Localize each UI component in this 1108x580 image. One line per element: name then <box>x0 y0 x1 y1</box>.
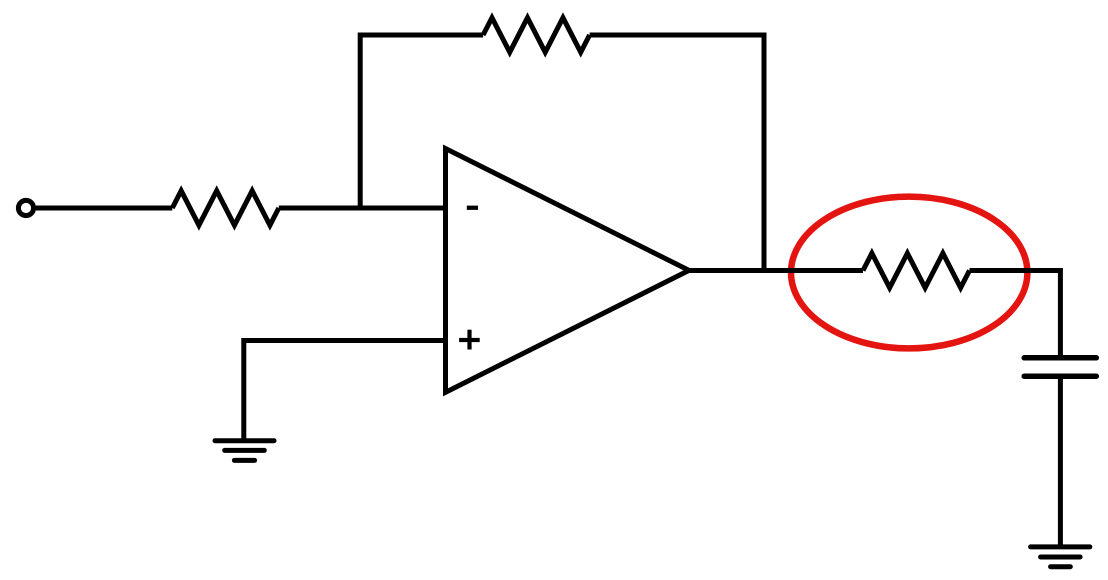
highlight ellipse (red) around output resistor <box>791 197 1027 349</box>
op-amp inverting input label "-" <box>467 206 478 210</box>
wire R3 right and down to capacitor <box>970 271 1061 356</box>
op-amp non-inverting input label "+" <box>459 330 480 350</box>
op-amp U1 triangle <box>446 149 690 393</box>
input terminal <box>18 200 33 215</box>
wire R2 right and down to output node <box>590 35 764 271</box>
ground (right, below capacitor) <box>1031 547 1090 567</box>
wire input terminal to R1 <box>36 206 173 211</box>
wire op-amp output to R3 <box>689 268 863 273</box>
wire R1 to op-amp inverting input <box>279 206 446 211</box>
resistor R3 (output, circled) <box>863 253 970 288</box>
wire capacitor to ground <box>1058 378 1063 547</box>
resistor R2 (feedback) <box>483 18 589 53</box>
wire non-inverting input to ground <box>244 341 446 442</box>
capacitor C1 <box>1024 358 1096 376</box>
wire feedback: node at inverting input up and right to R2 <box>360 35 483 208</box>
ground (left, at non-inverting input) <box>215 441 274 461</box>
resistor R1 (input) <box>172 191 278 226</box>
